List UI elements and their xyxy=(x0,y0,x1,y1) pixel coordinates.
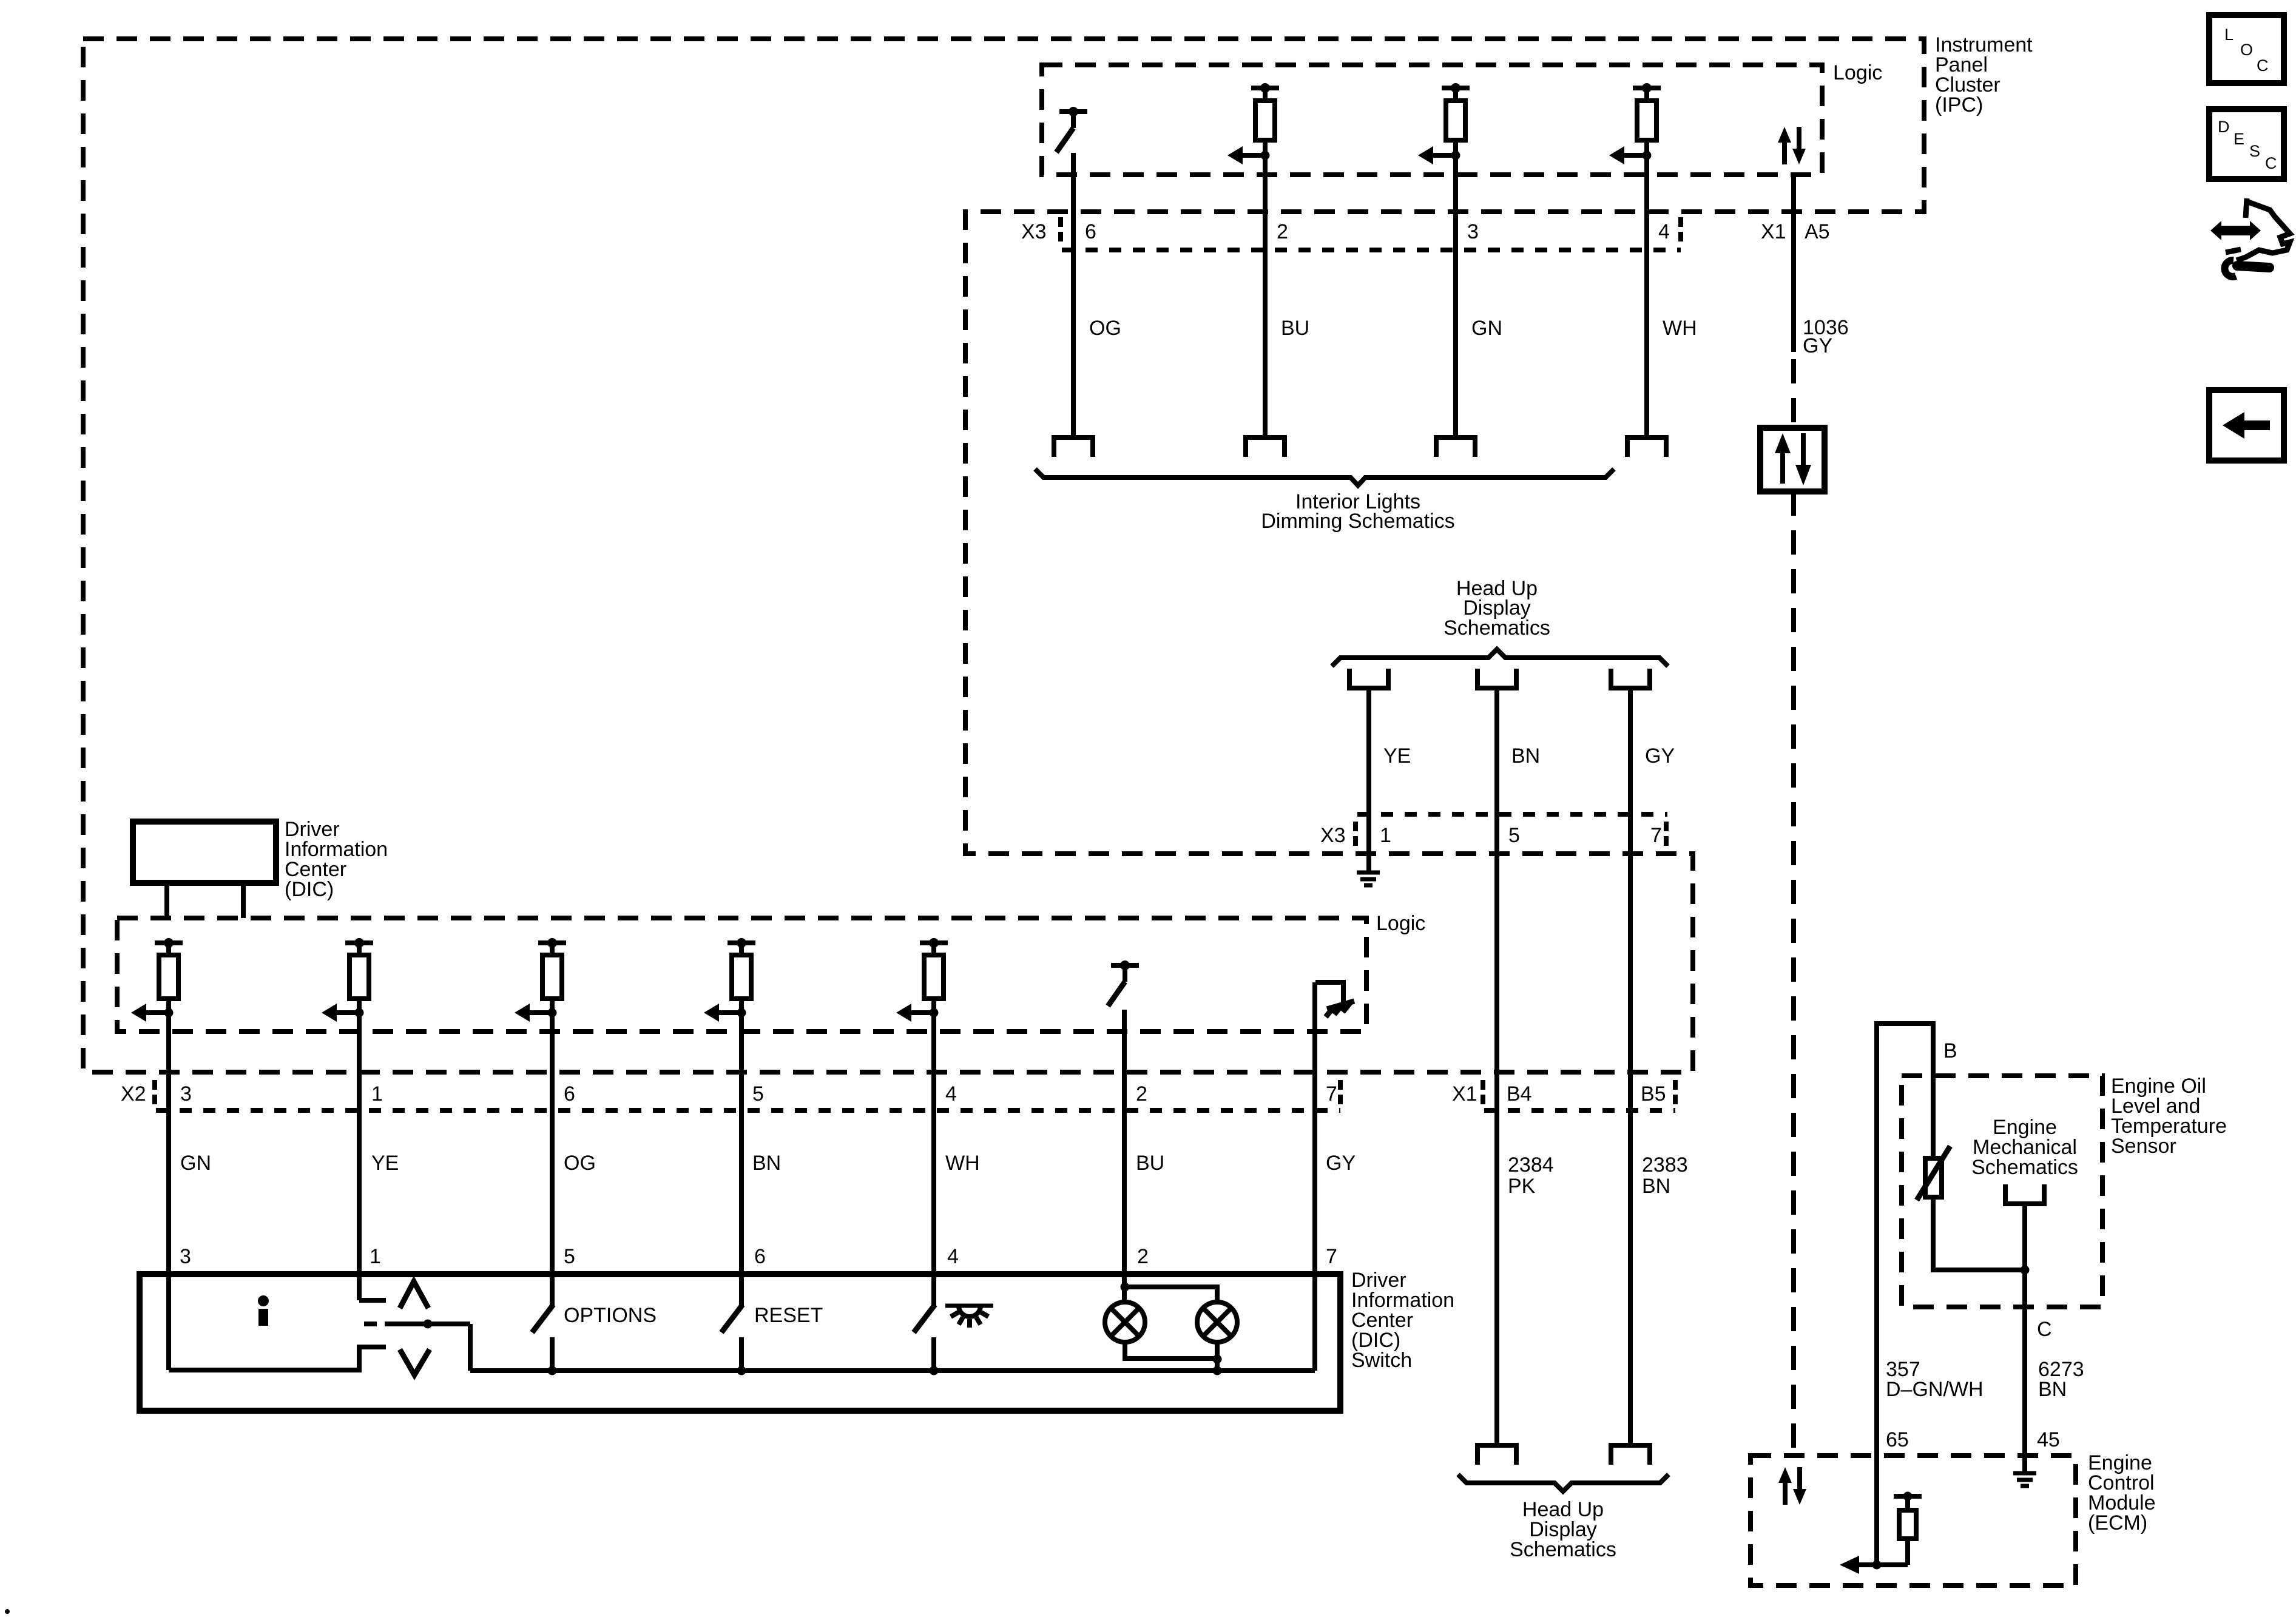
svg-text:X3: X3 xyxy=(1320,824,1346,847)
svg-text:B4: B4 xyxy=(1507,1082,1532,1106)
svg-text:6: 6 xyxy=(1085,220,1096,243)
svg-text:C: C xyxy=(2037,1318,2052,1341)
svg-text:Schematics: Schematics xyxy=(1971,1156,2078,1179)
svg-text:1: 1 xyxy=(370,1245,381,1268)
svg-text:2384: 2384 xyxy=(1508,1153,1554,1176)
svg-text:B5: B5 xyxy=(1641,1082,1666,1106)
svg-text:C: C xyxy=(2265,154,2277,172)
svg-text:BN: BN xyxy=(2038,1378,2067,1401)
svg-text:5: 5 xyxy=(752,1082,764,1106)
svg-text:2: 2 xyxy=(1277,220,1288,243)
svg-text:Switch: Switch xyxy=(1351,1349,1412,1372)
svg-text:YE: YE xyxy=(1383,744,1411,768)
svg-text:RESET: RESET xyxy=(754,1304,823,1327)
svg-text:65: 65 xyxy=(1886,1428,1909,1451)
svg-text:1: 1 xyxy=(1380,824,1391,847)
svg-text:WH: WH xyxy=(945,1152,980,1175)
svg-text:GY: GY xyxy=(1326,1152,1356,1175)
svg-text:Logic: Logic xyxy=(1833,61,1882,84)
svg-text:45: 45 xyxy=(2037,1428,2060,1451)
svg-text:BU: BU xyxy=(1281,317,1309,340)
svg-text:Logic: Logic xyxy=(1376,912,1425,935)
svg-text:PK: PK xyxy=(1508,1175,1536,1198)
svg-text:7: 7 xyxy=(1326,1082,1337,1106)
svg-text:OPTIONS: OPTIONS xyxy=(564,1304,657,1327)
svg-text:X2: X2 xyxy=(121,1082,146,1106)
svg-text:3: 3 xyxy=(180,1245,191,1268)
svg-text:GY: GY xyxy=(1803,334,1832,357)
svg-text:X3: X3 xyxy=(1021,220,1047,243)
svg-text:L: L xyxy=(2224,25,2234,44)
svg-text:6: 6 xyxy=(564,1082,575,1106)
svg-text:1: 1 xyxy=(371,1082,383,1106)
svg-text:YE: YE xyxy=(371,1152,399,1175)
svg-text:X1: X1 xyxy=(1761,220,1786,243)
svg-text:E: E xyxy=(2234,130,2244,148)
svg-text:Sensor: Sensor xyxy=(2111,1135,2176,1158)
svg-text:GN: GN xyxy=(1471,317,1502,340)
svg-text:Schematics: Schematics xyxy=(1443,616,1550,640)
svg-text:BU: BU xyxy=(1136,1152,1164,1175)
svg-text:A5: A5 xyxy=(1805,220,1830,243)
svg-text:GN: GN xyxy=(180,1152,211,1175)
svg-text:O: O xyxy=(2240,41,2253,59)
svg-text:OG: OG xyxy=(1089,317,1121,340)
svg-text:BN: BN xyxy=(752,1152,781,1175)
svg-text:WH: WH xyxy=(1663,317,1697,340)
svg-text:D: D xyxy=(2218,118,2230,136)
svg-text:3: 3 xyxy=(180,1082,192,1106)
svg-text:5: 5 xyxy=(1508,824,1520,847)
svg-text:GY: GY xyxy=(1645,744,1675,768)
svg-text:B: B xyxy=(1943,1039,1957,1062)
svg-text:7: 7 xyxy=(1326,1245,1337,1268)
svg-text:D–GN/WH: D–GN/WH xyxy=(1886,1378,1984,1401)
svg-text:OG: OG xyxy=(564,1152,596,1175)
svg-text:(ECM): (ECM) xyxy=(2088,1511,2147,1534)
svg-text:BN: BN xyxy=(1511,744,1540,768)
svg-text:5: 5 xyxy=(564,1245,575,1268)
svg-text:4: 4 xyxy=(947,1245,959,1268)
svg-text:S: S xyxy=(2249,142,2260,160)
svg-text:X1: X1 xyxy=(1452,1082,1477,1106)
svg-text:3: 3 xyxy=(1467,220,1479,243)
svg-text:(IPC): (IPC) xyxy=(1935,93,1983,116)
svg-text:6: 6 xyxy=(754,1245,766,1268)
svg-text:4: 4 xyxy=(1658,220,1670,243)
svg-text:(DIC): (DIC) xyxy=(285,878,334,901)
svg-text:Dimming Schematics: Dimming Schematics xyxy=(1261,510,1454,533)
svg-text:2: 2 xyxy=(1137,1245,1149,1268)
svg-text:2383: 2383 xyxy=(1642,1153,1688,1176)
svg-text:Schematics: Schematics xyxy=(1510,1538,1616,1561)
svg-text:7: 7 xyxy=(1650,824,1662,847)
svg-text:BN: BN xyxy=(1642,1175,1670,1198)
svg-text:2: 2 xyxy=(1136,1082,1147,1106)
svg-text:C: C xyxy=(2257,56,2269,75)
svg-text:4: 4 xyxy=(945,1082,957,1106)
